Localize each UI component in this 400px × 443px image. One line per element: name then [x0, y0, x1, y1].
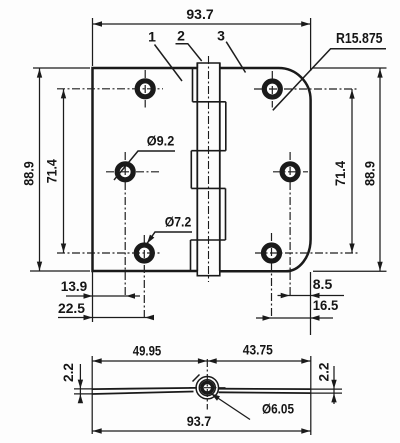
ext bottom view left — [91, 356, 93, 434]
svg-text:49.95: 49.95 — [133, 344, 162, 359]
svg-text:2.2: 2.2 — [317, 363, 332, 382]
dim line 88.9 left — [39, 68, 41, 271]
leader label 1 — [155, 45, 183, 82]
knuckle outer circle — [196, 377, 218, 399]
left leaf outline — [93, 68, 198, 271]
ext 2.2 left top — [74, 388, 92, 390]
svg-text:88.9: 88.9 — [21, 161, 37, 186]
leaf bar right top line — [219, 388, 311, 390]
leaf bar right bottom line — [219, 391, 311, 394]
ext left edge down — [92, 272, 94, 322]
arrows bottom view — [93, 358, 102, 363]
left leaf cutout edge seg3 — [190, 151, 192, 189]
ext 88.9 left top — [33, 67, 90, 69]
svg-text:93.7: 93.7 — [186, 6, 213, 22]
screw hole bottom-right ring — [264, 245, 280, 261]
leader label 3 — [226, 42, 245, 73]
dim line 2.2 right — [333, 366, 335, 404]
arrows 8.5 — [281, 293, 290, 298]
knuckle joint line 4 — [191, 239, 226, 241]
screw hole mid-left ring — [117, 164, 133, 180]
pin circle (thick) — [202, 382, 213, 393]
left leaf cutout edge seg1 — [192, 68, 194, 102]
screw hole top-left ring — [137, 81, 153, 97]
crosshair BR — [255, 252, 358, 254]
ext 2.2 left bottom — [74, 393, 92, 395]
dim line 93.7 top — [93, 23, 311, 25]
svg-text:22.5: 22.5 — [58, 300, 85, 316]
svg-text:93.7: 93.7 — [187, 413, 212, 429]
dim line 93.7 bottom — [92, 430, 311, 432]
leader O7.2 — [147, 232, 192, 244]
crosshair TR — [254, 88, 358, 90]
dim line 2.2 left — [79, 364, 81, 403]
knuckle barrel right line — [219, 63, 221, 271]
screw hole bottom-left ring — [136, 245, 152, 261]
ext 2.2 right bottom — [311, 392, 342, 394]
svg-text:88.9: 88.9 — [362, 161, 378, 186]
right leaf cutout edge seg4 — [225, 188, 227, 240]
leader O9.2 — [114, 151, 175, 180]
arrows 22.5 — [84, 315, 93, 320]
dimension arrows main view — [93, 21, 102, 26]
svg-text:R15.875: R15.875 — [336, 31, 383, 47]
leader label 2 — [176, 44, 202, 61]
knuckle centerline vertical — [206, 359, 208, 410]
knuckle joint line 1 — [193, 101, 226, 103]
svg-text:8.5: 8.5 — [313, 276, 333, 292]
dim line 71.4 left — [63, 89, 65, 253]
knuckle barrel left line — [196, 63, 198, 271]
dim line 49.95 / 43.75 — [92, 360, 311, 362]
svg-text:13.9: 13.9 — [61, 278, 88, 294]
arrow O7.2 — [145, 235, 155, 245]
dim line 88.9 right — [379, 68, 381, 271]
leaf bar left top line — [92, 388, 196, 389]
crosshairs / centerlines — [57, 70, 358, 319]
knuckle joint line 2 — [191, 150, 226, 152]
svg-text:16.5: 16.5 — [313, 297, 339, 313]
ext 93.7 right — [310, 18, 312, 71]
crosshair MR — [273, 171, 308, 173]
leader R15.875 — [273, 49, 386, 111]
crosshair BL — [57, 252, 162, 254]
svg-text:1: 1 — [148, 29, 156, 45]
svg-text:2: 2 — [177, 28, 185, 44]
dimension + extension lines — [30, 18, 387, 335]
svg-text:71.4: 71.4 — [44, 159, 60, 183]
ext 88.9 left bottom — [30, 270, 90, 272]
ext 2.2 right top — [311, 388, 342, 390]
leaf curl tick — [193, 375, 200, 382]
knuckle joint line 3 — [191, 187, 225, 189]
dim line 16.5 — [256, 317, 333, 319]
right leaf cutout edge seg2 — [225, 102, 227, 151]
crosshair ML — [106, 171, 161, 173]
right leaf outline with R15.875 rounded corners — [220, 68, 311, 271]
dim line 22.5 — [58, 317, 153, 319]
svg-text:2.2: 2.2 — [61, 363, 76, 382]
svg-text:Ø6.05: Ø6.05 — [262, 402, 294, 417]
dim line 71.4 right — [351, 89, 353, 253]
leader O6.05 — [211, 394, 250, 420]
knuckle middle circle — [199, 380, 215, 396]
ext 88.9 right top — [313, 67, 387, 69]
svg-text:Ø7.2: Ø7.2 — [165, 214, 192, 230]
screw hole mid-right ring — [282, 164, 298, 180]
svg-text:Ø9.2: Ø9.2 — [147, 133, 175, 149]
svg-text:71.4: 71.4 — [332, 161, 348, 186]
ext 93.7 left — [92, 18, 94, 66]
crosshair TL — [57, 88, 163, 90]
pin cap bottom — [197, 271, 220, 276]
screw hole top-right ring — [264, 81, 280, 97]
svg-text:43.75: 43.75 — [243, 343, 273, 358]
ext bottom view right — [310, 356, 312, 435]
leaf bar left bottom line — [92, 392, 194, 395]
dim line 8.5 — [278, 295, 345, 297]
ext 88.9 right bottom — [313, 270, 387, 272]
pin cap top — [197, 63, 220, 68]
leader lines — [114, 42, 386, 244]
pin centerline — [208, 56, 210, 282]
left leaf cutout edge seg5 — [190, 240, 192, 271]
arrows 16.5 — [263, 315, 272, 320]
dim line 13.9 — [66, 295, 140, 297]
knuckle crosshair horizontal — [189, 387, 226, 389]
svg-text:3: 3 — [217, 28, 225, 44]
ext right edge down — [310, 272, 312, 335]
arrows 13.9 — [84, 293, 93, 298]
